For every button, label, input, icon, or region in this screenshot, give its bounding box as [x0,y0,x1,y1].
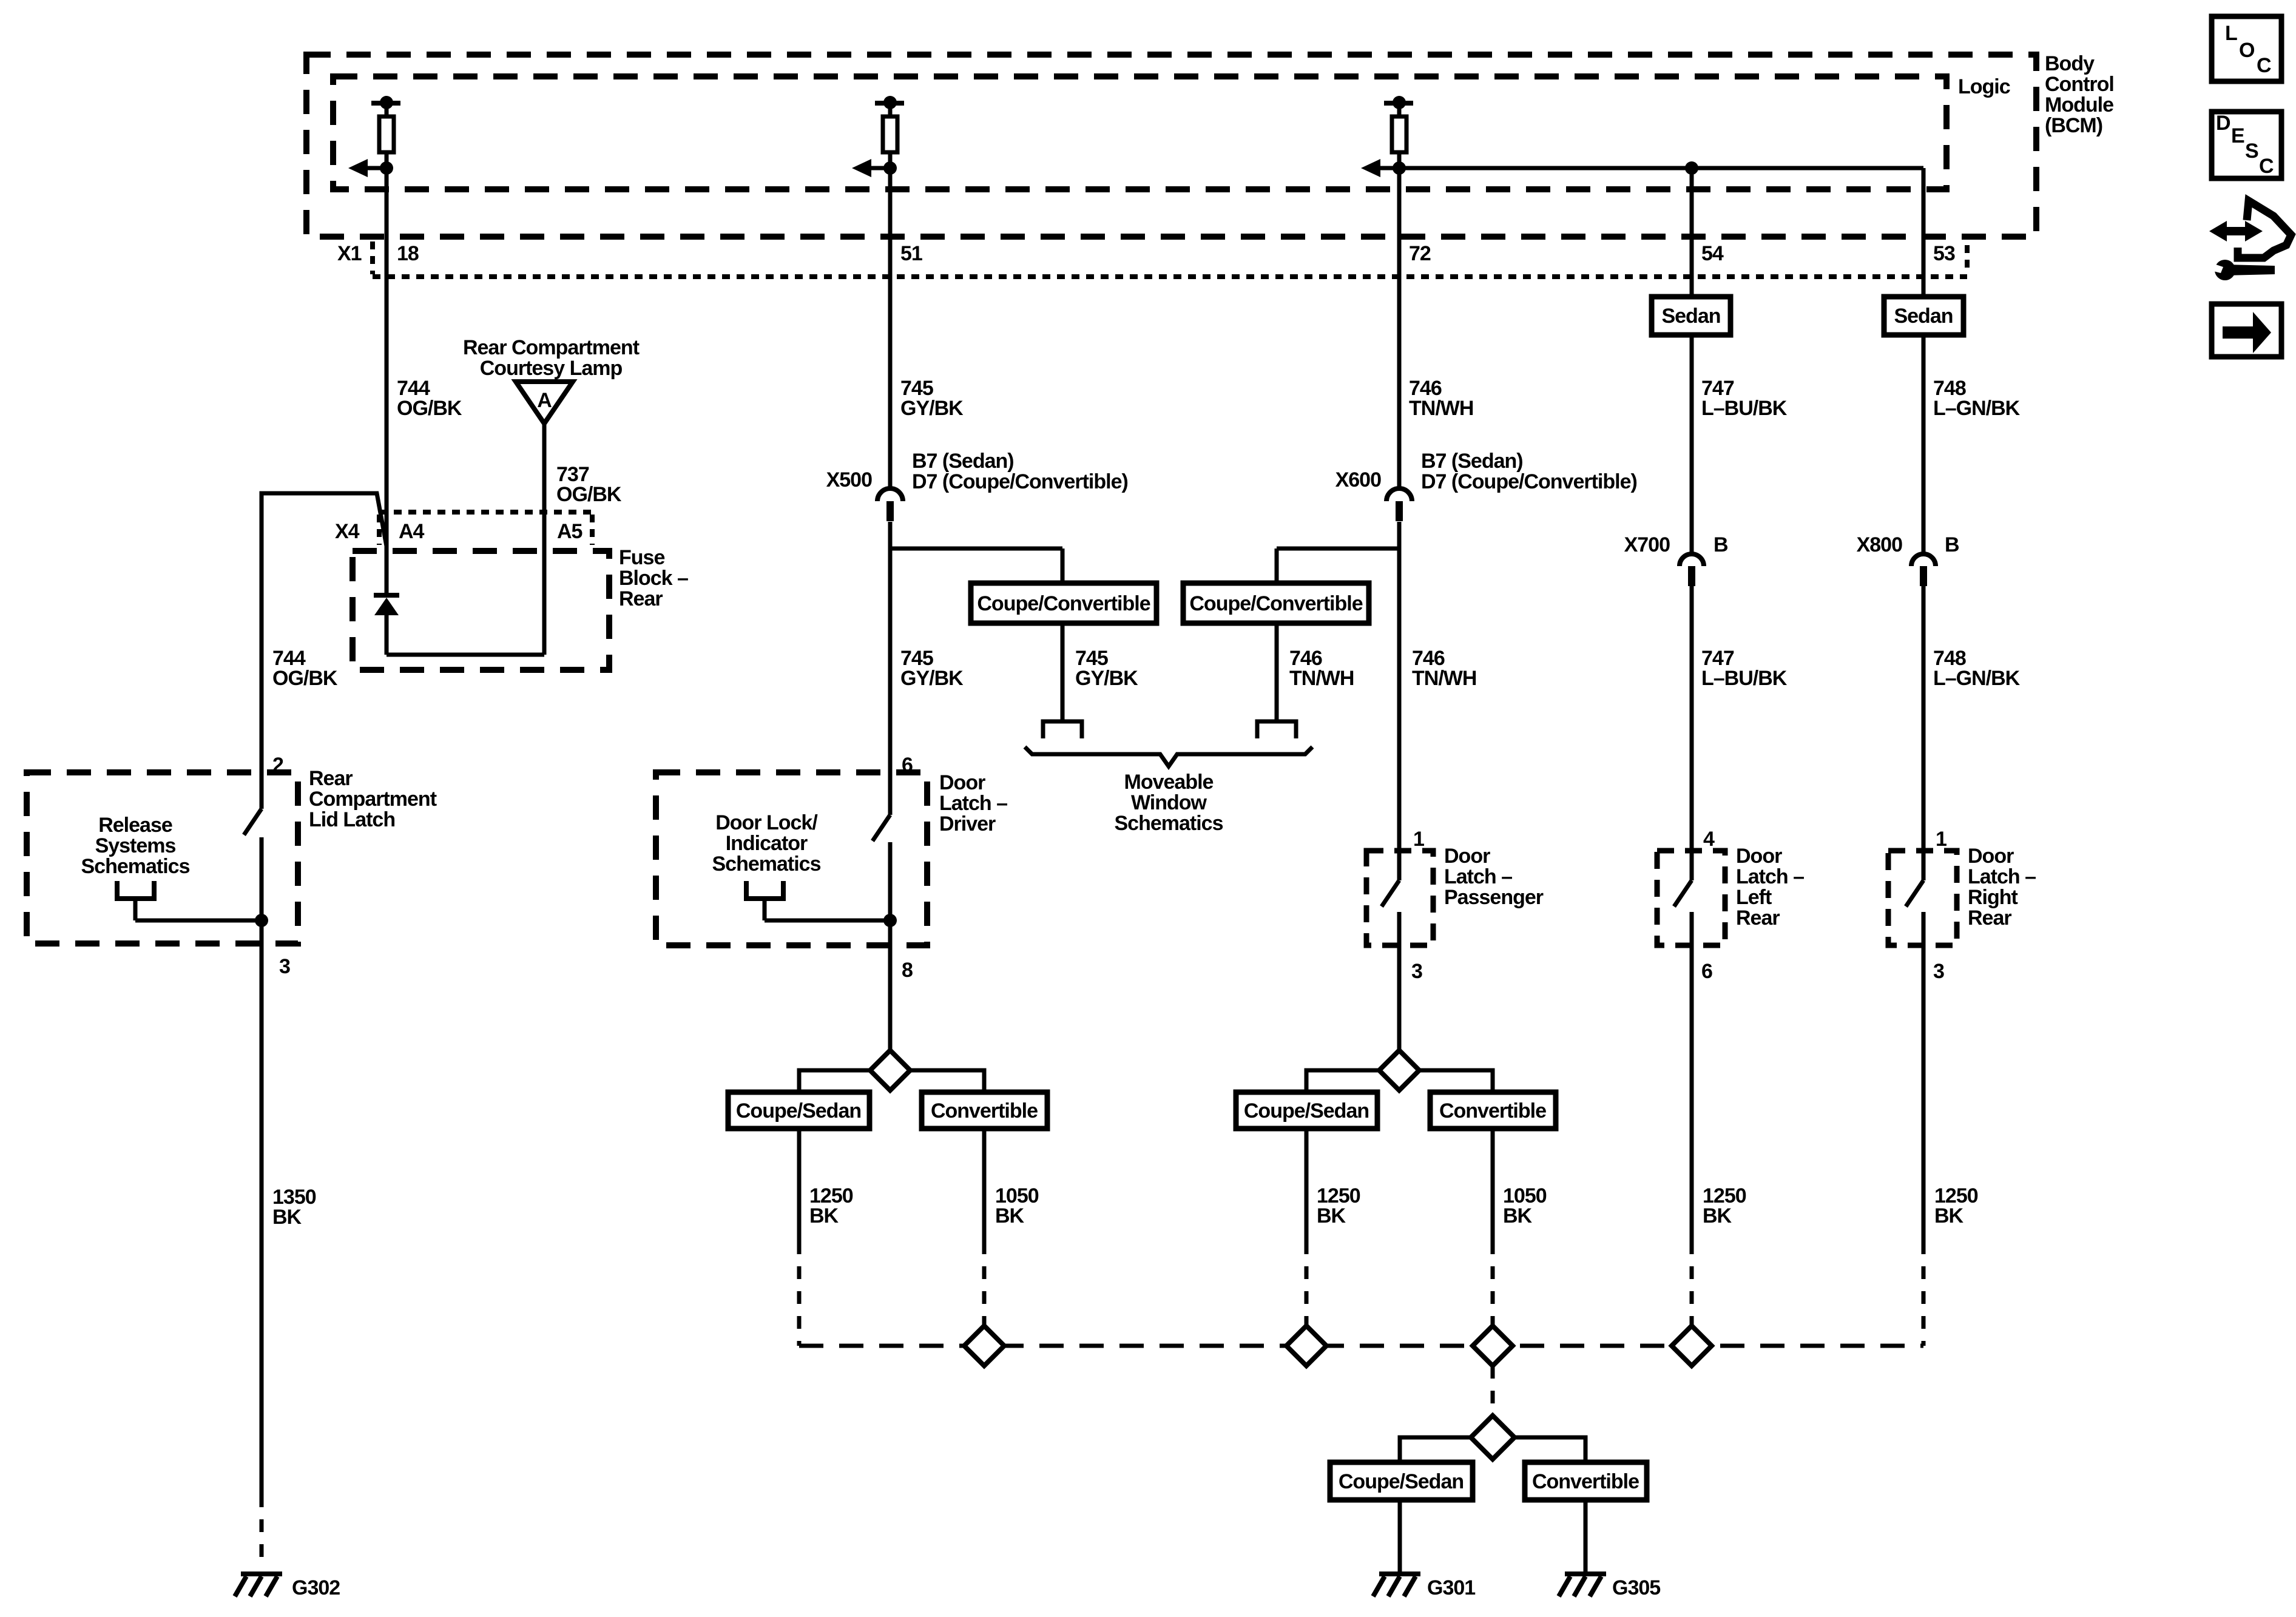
wire: splice to Coupe/Sedan (driver) [799,1070,870,1092]
vehicle-variant box: Sedan (747) [1652,297,1730,335]
svg-text:4: 4 [1703,828,1715,851]
svg-text:BK: BK [1503,1204,1533,1227]
wire 746 TN/WH pin 72 to X600 [1399,168,1473,487]
svg-text:BK: BK [1703,1204,1732,1227]
vehicle-variant box: Coupe/Sedan (passenger) [1236,1092,1377,1129]
wire: splice to Convertible (ground) [1514,1437,1585,1462]
svg-text:Right: Right [1968,886,2018,909]
wire: left rear latch pin 6 down [1692,912,1712,1241]
svg-text:Control: Control [2045,73,2114,96]
wire 747 L-BU/BK X700 to door latch left rear [1692,586,1788,880]
svg-text:A4: A4 [399,520,425,543]
wire to G301 [1398,1500,1402,1574]
svg-text:B7 (Sedan): B7 (Sedan) [912,450,1014,473]
connector label X700 pin B [1624,533,1728,556]
wire: driver latch pin 8 to splice [890,842,913,1050]
svg-text:TN/WH: TN/WH [1409,397,1473,420]
wire 1050 BK (passenger convertible) [1493,1129,1547,1241]
wire 745 GY/BK below variant box [1062,623,1138,721]
vehicle-variant box: Coupe/Sedan (ground) [1330,1462,1473,1500]
ground G305 [1559,1574,1660,1599]
wire label 1250 BK (right rear) [1934,1184,1978,1227]
wire branch 745 GY/BK to moveable window (coupe/convertible) [890,549,1062,583]
svg-text:Compartment: Compartment [309,788,437,811]
svg-text:18: 18 [397,242,419,265]
svg-text:8: 8 [902,959,913,982]
wire 1250 BK (driver coupe/sedan) [799,1129,853,1241]
svg-text:Body: Body [2045,52,2095,75]
svg-text:TN/WH: TN/WH [1412,667,1476,690]
svg-text:Schematics: Schematics [81,855,190,878]
svg-text:Door: Door [1736,845,1782,868]
in-line connector X700 [1680,554,1704,586]
wire 746 TN/WH X600 to door latch passenger [1399,522,1476,880]
label: Moveable Window Schematics [1115,771,1223,835]
svg-text:L–BU/BK: L–BU/BK [1701,397,1788,420]
svg-text:Door Lock/: Door Lock/ [715,811,818,834]
svg-text:Door: Door [939,771,985,794]
svg-text:X4: X4 [335,520,360,543]
wire: splice to Convertible (passenger) [1419,1070,1493,1092]
svg-text:Passenger: Passenger [1444,886,1544,909]
lamp: Rear Compartment Courtesy Lamp (symbol A) [463,336,640,424]
signal-direction arrow at pin 72 [1361,159,1406,177]
vehicle-variant box: Coupe/Sedan (driver) [728,1092,869,1129]
svg-text:Lid Latch: Lid Latch [309,808,395,831]
vehicle-variant box: Coupe/Convertible (right) [1183,583,1369,623]
svg-text:BK: BK [995,1204,1025,1227]
wire 747 L-BU/BK Sedan box to X700 [1692,335,1788,553]
wire to G305 [1584,1500,1588,1574]
svg-text:Coupe/Sedan: Coupe/Sedan [1244,1099,1369,1122]
svg-text:Driver: Driver [939,812,996,836]
wire: passenger latch pin 3 to splice [1399,912,1422,1050]
svg-text:3: 3 [1933,960,1944,983]
svg-text:B7 (Sedan): B7 (Sedan) [1421,450,1523,473]
wire label 1250 BK (left rear) [1703,1184,1746,1227]
svg-text:Left: Left [1736,886,1772,909]
svg-text:Latch –: Latch – [939,792,1007,815]
svg-text:Latch –: Latch – [1736,865,1804,888]
icon: diagnostic arrows and wrench [2209,201,2291,280]
splice ground select [1471,1416,1514,1459]
svg-text:Sedan: Sedan [1894,305,1953,328]
wire 1250 BK (passenger coupe/sedan) [1306,1129,1360,1241]
svg-text:Fuse: Fuse [619,546,664,569]
icon: LOC reference box [2212,16,2281,81]
svg-text:6: 6 [902,754,913,777]
svg-text:Module: Module [2045,93,2113,116]
splice bus 2 [1286,1326,1326,1366]
vehicle-variant box: Convertible (passenger) [1430,1092,1556,1129]
svg-text:Window: Window [1131,791,1207,814]
wire: bracket to driver latch switch [765,914,897,927]
wire branch to lid latch (744 OG/BK) [262,493,387,809]
svg-text:X700: X700 [1624,533,1670,556]
svg-text:Convertible: Convertible [1532,1470,1639,1493]
wire 737 OG/BK lamp to fuse block [544,424,622,655]
svg-text:51: 51 [900,242,922,265]
svg-text:Release: Release [98,814,172,837]
vehicle-variant box: Convertible (ground) [1525,1462,1647,1500]
in-line connector X800 [1911,554,1936,586]
wire 748 L-GN/BK pin 53 to Sedan box [1922,168,1926,297]
svg-text:Latch –: Latch – [1444,865,1512,888]
wire 748 L-GN/BK X800 to door latch right rear [1923,586,2021,880]
switch blade lid latch [244,809,262,835]
svg-text:G305: G305 [1612,1576,1660,1599]
vehicle-variant box: Coupe/Convertible (left) [971,583,1156,623]
module: Release Systems Schematics dashed outline [27,772,298,944]
dashed ground bus [799,1344,1923,1348]
svg-text:Rear Compartment: Rear Compartment [463,336,640,359]
svg-text:OG/BK: OG/BK [556,483,622,506]
svg-text:3: 3 [279,955,290,978]
svg-text:X800: X800 [1857,533,1902,556]
wire: lid latch lower contact to ground [262,837,290,1569]
resistor at BCM pin 18 (BCM output driver) [371,96,400,168]
svg-text:Rear: Rear [619,587,663,610]
switch: Rear Compartment Lid Latch [272,754,437,831]
switch: Door Latch - Driver [902,754,1007,836]
module: Body Control Module (BCM) dashed outline [306,52,2114,237]
dashed ground bus wires [799,1241,1923,1346]
splice bus 4 [1672,1326,1712,1366]
terminal end to moveable window schematics (driver) [1043,721,1082,738]
svg-text:GY/BK: GY/BK [1075,667,1138,690]
svg-text:(BCM): (BCM) [2045,114,2102,137]
connector label X800 pin B [1857,533,1959,556]
wire label 744 OG/BK (lower) [272,647,338,690]
switch: Door Latch - Passenger (dashed box) [1366,828,1544,945]
switch: Door Latch - Right Rear (dashed box) [1888,828,2036,945]
wire: splice to Coupe/Sedan (passenger) [1306,1070,1379,1092]
signal-direction arrow at pin 51 [852,159,897,177]
module: Door Lock/Indicator Schematics dashed outline [656,772,927,945]
in-line connector X500 [877,488,903,521]
module section: Logic dashed outline [333,75,2010,189]
connector X1 (BCM harness connector) [337,241,1967,277]
svg-text:53: 53 [1933,242,1955,265]
switch blade left rear latch [1674,880,1692,906]
svg-text:3: 3 [1411,960,1422,983]
resistor at BCM pin 72 (BCM output driver) [1384,96,1413,168]
svg-text:Rear: Rear [309,767,353,790]
svg-text:1: 1 [1936,828,1947,851]
svg-text:C: C [2259,155,2274,178]
svg-text:O: O [2239,39,2255,62]
svg-text:OG/BK: OG/BK [272,667,338,690]
switch blade passenger latch [1382,880,1399,906]
switch blade driver latch [873,815,890,841]
svg-text:BK: BK [272,1206,302,1229]
svg-text:C: C [2257,54,2271,77]
svg-text:G301: G301 [1427,1576,1475,1599]
switch blade right rear latch [1906,880,1923,906]
terminal end to moveable window schematics (passenger) [1257,721,1296,738]
svg-text:Convertible: Convertible [1439,1099,1546,1122]
wire: bracket to lid latch switch [135,914,268,927]
pin label B7 (Sedan) / D7 (Coupe/Convertible) at X500 [912,450,1128,493]
svg-text:Convertible: Convertible [931,1099,1038,1122]
svg-text:Sedan: Sedan [1661,305,1720,328]
icon: DESC reference box [2212,112,2281,178]
vehicle-variant box: Convertible (driver) [922,1092,1047,1129]
in-line connector X600 [1386,488,1412,521]
resistor at BCM pin 51 (BCM output driver) [875,96,904,168]
svg-text:Block –: Block – [619,567,688,590]
svg-text:B: B [1714,533,1728,556]
wire label 1350 BK [272,1186,316,1229]
svg-text:OG/BK: OG/BK [397,397,462,420]
svg-text:Coupe/Convertible: Coupe/Convertible [977,592,1150,615]
svg-text:BK: BK [809,1204,839,1227]
svg-text:Coupe/Convertible: Coupe/Convertible [1189,592,1362,615]
schematic-reference bracket door lock/indicator [746,881,783,899]
svg-text:BK: BK [1934,1204,1964,1227]
ground G302 [235,1574,340,1599]
svg-text:X600: X600 [1335,468,1381,491]
svg-text:6: 6 [1701,960,1712,983]
wire 746 TN/WH below variant box [1277,623,1354,721]
wire: BCM internal link pin72 to pins 54/53 [1399,161,1923,175]
wire: fuse block internal A4 to A5 [387,653,544,657]
svg-text:72: 72 [1409,242,1431,265]
schematic-reference bracket release systems [117,881,154,899]
svg-text:L: L [2225,22,2237,45]
wire branch 746 TN/WH to moveable window (coupe/convertible) [1277,549,1399,583]
svg-text:Coupe/Sedan: Coupe/Sedan [1339,1470,1464,1493]
wire: splice to Convertible (driver) [910,1070,984,1092]
svg-text:Moveable: Moveable [1124,771,1214,794]
svg-text:S: S [2245,140,2258,163]
svg-text:Schematics: Schematics [712,852,821,876]
svg-text:Door: Door [1968,845,2014,868]
switch: Door Latch - Left Rear (dashed box) [1657,828,1804,945]
icon: continuation arrow box [2212,304,2281,357]
signal-direction arrow at pin 18 [348,159,393,177]
splice passenger circuit [1379,1050,1419,1090]
wire 748 L-GN/BK Sedan box to X800 [1923,335,2021,553]
svg-text:Systems: Systems [95,834,176,857]
svg-text:1: 1 [1413,828,1424,851]
svg-text:Rear: Rear [1736,906,1780,930]
wire 745 GY/BK X500 to door latch driver [890,522,964,815]
brace: moveable window schematics reference [1025,747,1312,766]
svg-text:GY/BK: GY/BK [900,397,964,420]
svg-text:E: E [2231,124,2244,147]
svg-text:Rear: Rear [1968,906,2011,930]
wire 747 L-BU/BK pin 54 to Sedan box [1690,168,1694,297]
svg-text:2: 2 [272,754,283,777]
svg-text:D: D [2216,112,2230,135]
splice driver circuit [870,1050,910,1090]
svg-text:Schematics: Schematics [1115,812,1223,835]
svg-text:D7 (Coupe/Convertible): D7 (Coupe/Convertible) [912,470,1128,493]
splice bus 1 [964,1326,1004,1366]
svg-text:BK: BK [1317,1204,1346,1227]
svg-text:Door: Door [1444,845,1490,868]
connector X4 (fuse block) pins A4 A5 [335,512,592,545]
svg-text:Logic: Logic [1958,75,2010,98]
wire 745 GY/BK pin 51 to X500 [890,168,964,487]
svg-text:TN/WH: TN/WH [1289,667,1354,690]
module: Fuse Block - Rear dashed outline [353,546,688,670]
svg-text:Latch –: Latch – [1968,865,2036,888]
wire 744 OG/BK from pin 18 to fuse block [387,168,462,595]
diode D (in fuse block) [374,595,399,655]
svg-text:L–GN/BK: L–GN/BK [1933,667,2021,690]
svg-text:L–GN/BK: L–GN/BK [1933,397,2021,420]
vehicle-variant box: Sedan (748) [1884,297,1963,335]
wire: right rear latch pin 3 down [1923,912,1944,1241]
splice bus 3 [1473,1326,1513,1366]
svg-text:D7 (Coupe/Convertible): D7 (Coupe/Convertible) [1421,470,1637,493]
wire: splice to Coupe/Sedan (ground) [1400,1437,1471,1462]
wire 1050 BK (driver convertible) [984,1129,1039,1241]
dashed stub to lower splice [1491,1366,1495,1416]
svg-text:Indicator: Indicator [726,832,808,855]
svg-text:L–BU/BK: L–BU/BK [1701,667,1788,690]
svg-text:X500: X500 [826,468,872,491]
svg-text:X1: X1 [337,242,362,265]
pin label B7 (Sedan) / D7 (Coupe/Convertible) at X600 [1421,450,1637,493]
svg-text:A: A [537,389,552,412]
svg-text:Courtesy Lamp: Courtesy Lamp [480,357,623,380]
svg-text:54: 54 [1701,242,1724,265]
svg-text:A5: A5 [557,520,582,543]
svg-text:Coupe/Sedan: Coupe/Sedan [736,1099,861,1122]
svg-text:GY/BK: GY/BK [900,667,964,690]
svg-text:B: B [1945,533,1959,556]
ground G301 [1373,1574,1475,1599]
svg-text:G302: G302 [292,1576,340,1599]
